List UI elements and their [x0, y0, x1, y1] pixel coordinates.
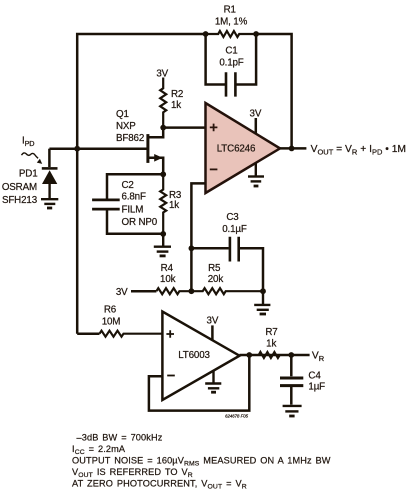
wire output LT6003 [240, 354, 310, 357]
resistor R2 [160, 78, 166, 128]
wire 3V to R4 [131, 290, 156, 293]
svg-text:R6: R6 [104, 305, 117, 316]
node feedback tap [246, 352, 252, 358]
svg-text:1k: 1k [169, 200, 179, 211]
3V stub LTC6246 [255, 118, 258, 134]
svg-text:C1: C1 [225, 46, 237, 57]
3V stub LT6003 [211, 325, 214, 340]
resistor R6 [100, 331, 163, 337]
wire to +in LTC6246 [163, 126, 205, 129]
ground LTC6246 [248, 163, 264, 186]
svg-text:R5: R5 [208, 263, 221, 274]
svg-text:R7: R7 [265, 327, 277, 338]
svg-text:624678 F05: 624678 F05 [225, 414, 249, 419]
resistor R1 [206, 31, 257, 37]
svg-text:BF862: BF862 [116, 133, 144, 144]
photodiode PD1 [42, 149, 58, 199]
wire output LTC6246 [280, 147, 306, 150]
svg-text:3V: 3V [156, 69, 168, 80]
ground C4 [283, 406, 302, 416]
svg-text:1k: 1k [171, 100, 181, 111]
op-amp U2 LT6003 [162, 312, 239, 401]
svg-text:OSRAM: OSRAM [2, 182, 37, 193]
node PD branch [74, 146, 80, 152]
transistor Q1 [148, 128, 163, 175]
light arrow [22, 153, 43, 164]
node R4 R5 [189, 288, 195, 294]
node R5 right [260, 288, 266, 294]
svg-text:C2: C2 [122, 180, 134, 191]
svg-text:SFH213: SFH213 [2, 195, 38, 206]
svg-text:10M: 10M [102, 317, 121, 328]
capacitor C1 [206, 34, 257, 85]
plus marker [210, 124, 218, 132]
resistor R7 [259, 352, 280, 358]
resistor R4 [156, 288, 191, 294]
svg-text:FILM: FILM [122, 204, 144, 215]
wire top rail right [256, 34, 292, 148]
svg-text:6.8nF: 6.8nF [122, 192, 146, 203]
node R1 right [253, 31, 259, 37]
minus marker [210, 168, 218, 170]
svg-text:3V: 3V [250, 109, 262, 120]
svg-text:20k: 20k [208, 274, 224, 285]
wire photodiode branch / Q1 gate row [49, 147, 148, 150]
wire top rail left [77, 34, 205, 334]
resistor R5 [191, 288, 263, 294]
svg-text:C4: C4 [308, 371, 321, 382]
resistor R3 [160, 174, 166, 234]
svg-text:R4: R4 [161, 263, 174, 274]
svg-text:C3: C3 [226, 212, 239, 223]
svg-text:LT6003: LT6003 [178, 350, 210, 361]
node C3 tap [189, 245, 195, 251]
ground R5 [254, 291, 270, 314]
svg-text:3V: 3V [207, 315, 219, 326]
svg-text:–3dB BW = 700kHz: –3dB BW = 700kHz [77, 433, 163, 443]
capacitor C4 [280, 355, 303, 405]
capacitor C3 [191, 237, 263, 291]
svg-text:LTC6246: LTC6246 [217, 144, 256, 155]
wire -in LT6003 feedback loop [149, 355, 249, 411]
node Q1 source [160, 171, 166, 177]
svg-text:Q1: Q1 [116, 109, 129, 120]
minus marker U2 [167, 375, 175, 377]
ground PD1 [41, 199, 58, 208]
svg-text:1M, 1%: 1M, 1% [215, 17, 248, 28]
ground LT6003 [205, 371, 221, 392]
svg-text:10k: 10k [160, 274, 176, 285]
node VOUT [289, 146, 295, 152]
svg-text:R1: R1 [224, 5, 236, 16]
svg-text:OR NP0: OR NP0 [122, 217, 158, 228]
capacitor C2 [92, 174, 163, 233]
plus marker U2 [166, 330, 174, 338]
svg-text:PD1: PD1 [19, 169, 38, 180]
svg-text:0.1pF: 0.1pF [219, 58, 243, 69]
svg-text:R2: R2 [171, 89, 183, 100]
node R2 / Q1 drain [160, 125, 166, 131]
wire -in LTC6246 feedback [191, 183, 205, 291]
node R1 left [203, 31, 209, 37]
node VR [288, 352, 294, 358]
svg-text:3V: 3V [116, 287, 128, 298]
node R3 bottom [160, 231, 166, 237]
svg-text:NXP: NXP [116, 121, 136, 132]
svg-text:0.1µF: 0.1µF [222, 224, 247, 235]
ground R3 [154, 234, 171, 256]
svg-text:1µF: 1µF [308, 381, 325, 392]
op-amp U1 LTC6246 [206, 103, 281, 193]
svg-text:1k: 1k [266, 339, 276, 350]
wire R6 lead left [77, 332, 99, 335]
